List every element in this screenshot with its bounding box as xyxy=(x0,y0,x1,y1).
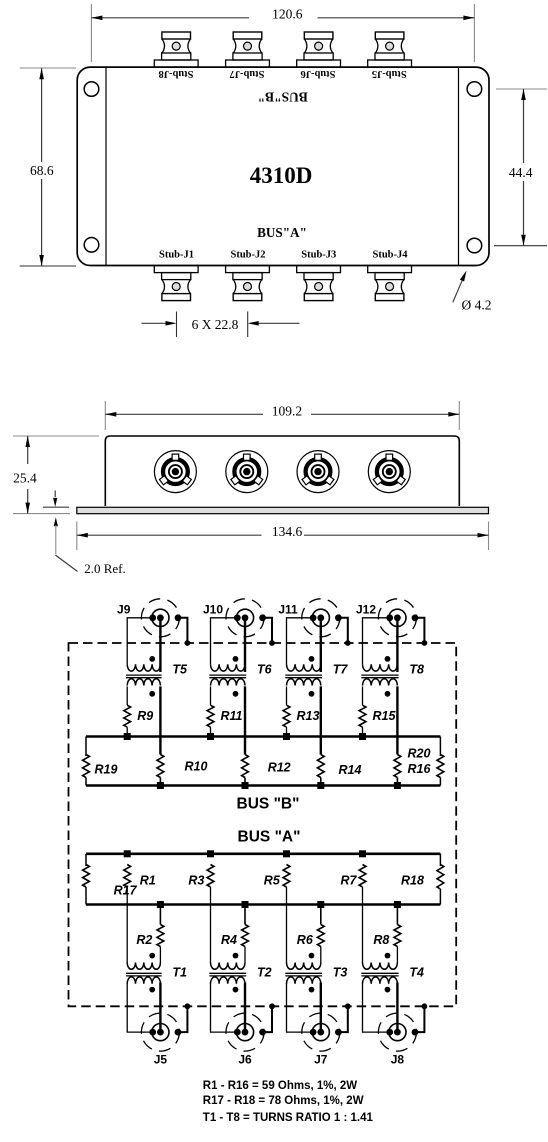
junction J8 shell on shield xyxy=(422,1003,428,1009)
resistor R20 xyxy=(437,755,444,778)
svg-text:J9: J9 xyxy=(117,602,131,616)
wire R5 to transformer T3 xyxy=(286,887,288,963)
polarity dot T3 secondary xyxy=(309,987,315,993)
top view: mounting hole bottom-right xyxy=(467,238,482,253)
wire R3 to transformer T2 xyxy=(210,887,212,963)
junction R3 on bus A upper rail xyxy=(207,850,214,857)
resistor R10 xyxy=(157,755,164,778)
wire T6 to R11 xyxy=(210,686,212,705)
wire J9 shell to shield xyxy=(178,618,187,643)
junction J11 shell on shield xyxy=(345,640,351,646)
svg-text:J11: J11 xyxy=(278,602,298,616)
svg-text:Ø 4.2: Ø 4.2 xyxy=(462,298,492,313)
wire T2 to J6 center pin xyxy=(244,983,246,1033)
svg-text:R5: R5 xyxy=(264,874,281,888)
svg-text:109.2: 109.2 xyxy=(272,403,302,418)
svg-text:R3: R3 xyxy=(188,874,204,888)
resistor R8 xyxy=(394,925,401,947)
connector J7 xyxy=(302,1013,340,1051)
junction R9 on bus B xyxy=(124,733,131,740)
svg-text:T6: T6 xyxy=(257,662,273,676)
dimension 120.6 extension lines xyxy=(90,4,92,62)
svg-text:R20: R20 xyxy=(408,747,431,761)
connector J5 xyxy=(141,1013,179,1051)
resistor R1 xyxy=(124,865,131,888)
wire J12 shell to shield xyxy=(415,618,424,643)
wire T6 secondary to R12 xyxy=(244,686,246,754)
connector J12 xyxy=(378,599,416,637)
dimension 109.2 extension lines xyxy=(104,401,106,430)
dimension 109.2 line xyxy=(105,413,263,415)
junction R8 on bus A lower rail xyxy=(394,901,401,908)
svg-text:J12: J12 xyxy=(356,602,376,616)
svg-text:T1 - T8 = TURNS RATIO 1 : 1.41: T1 - T8 = TURNS RATIO 1 : 1.41 xyxy=(203,1112,374,1124)
side view: base plate xyxy=(77,507,489,513)
polarity dot T1 secondary xyxy=(149,987,155,993)
wire bus A to R6 xyxy=(320,905,322,925)
polarity dot T3 primary xyxy=(309,953,315,959)
resistor R16 xyxy=(394,755,401,778)
wire T3 to J7 center pin xyxy=(320,983,322,1033)
resistor R13 xyxy=(283,705,290,727)
wire J10 left contact to transformer T6 xyxy=(211,618,238,665)
dimension 134.6 extension lines xyxy=(76,522,78,551)
connector Stub-J8 (top view BNC) xyxy=(154,60,198,67)
polarity dot T4 secondary xyxy=(385,987,391,993)
dimension 44.4 extension lines xyxy=(496,88,547,90)
svg-text:R13: R13 xyxy=(297,709,320,723)
chassis/shield dashed enclosure xyxy=(69,643,457,1006)
svg-text:BUS"A": BUS"A" xyxy=(257,225,307,240)
junction R10 on bus B lower rail xyxy=(157,782,164,789)
svg-text:BUS "B": BUS "B" xyxy=(237,796,300,813)
wire R9 to bus B upper rail xyxy=(126,727,128,736)
junction R6 on bus A lower rail xyxy=(317,901,324,908)
junction R15 on bus B xyxy=(359,733,366,740)
svg-text:Stub-J7: Stub-J7 xyxy=(229,68,264,79)
junction R7 on bus A upper rail xyxy=(359,850,366,857)
connector J1 front face (side view) xyxy=(154,451,196,493)
svg-text:R7: R7 xyxy=(341,874,358,888)
side view: enclosure body xyxy=(105,436,459,506)
svg-text:T5: T5 xyxy=(172,662,188,676)
resistor R6 xyxy=(317,925,324,947)
polarity dot T2 secondary xyxy=(233,987,239,993)
polarity dot T8 secondary xyxy=(385,691,391,697)
wire J11 shell to shield xyxy=(338,618,347,643)
wire T1 to J5 center pin xyxy=(159,983,161,1033)
junction J9 shell on shield xyxy=(185,640,191,646)
resistor R2 xyxy=(157,925,164,947)
wire R20 to lower rail xyxy=(439,778,441,786)
wire bus A to R2 xyxy=(159,905,161,925)
wire bus A to R4 xyxy=(244,905,246,925)
svg-text:T8: T8 xyxy=(409,662,424,676)
svg-text:R6: R6 xyxy=(297,933,314,947)
svg-text:J7: J7 xyxy=(314,1053,328,1067)
wire R7 to transformer T4 xyxy=(362,887,364,963)
transformer T3 xyxy=(287,963,321,970)
resistor R14 xyxy=(317,755,324,778)
wire T8 to R15 xyxy=(362,686,364,705)
resistor R15 xyxy=(359,705,366,727)
wire R11 to bus B upper rail xyxy=(210,727,212,736)
wire T8 secondary to R16 xyxy=(396,686,398,754)
wire T7 to R13 xyxy=(286,686,288,705)
transformer T8 xyxy=(363,664,398,671)
dimension 68.6 line xyxy=(41,68,43,162)
svg-text:R1 - R16 = 59 Ohms, 1%, 2W: R1 - R16 = 59 Ohms, 1%, 2W xyxy=(203,1080,357,1092)
svg-text:R10: R10 xyxy=(185,760,208,774)
connector Stub-J7 (top view BNC) xyxy=(226,60,270,67)
wire R1 to transformer T1 xyxy=(126,887,128,963)
resistor R19 xyxy=(83,755,90,778)
svg-text:4310D: 4310D xyxy=(250,163,313,188)
top view: mounting hole bottom-left xyxy=(84,238,99,253)
wire R2 to transformer T1 xyxy=(159,947,161,963)
junction R13 on bus B xyxy=(283,733,290,740)
junction R11 on bus B xyxy=(207,733,214,740)
wire J12 center pin down xyxy=(396,618,398,672)
connector Stub-J5 (top view BNC) xyxy=(368,60,412,67)
svg-text:R15: R15 xyxy=(373,709,397,723)
junction R14 on bus B lower rail xyxy=(317,782,324,789)
wire R12 to bus B lower rail xyxy=(244,778,246,786)
wire J12 left contact to transformer T8 xyxy=(363,618,390,665)
polarity dot T7 secondary xyxy=(309,691,315,697)
svg-text:R8: R8 xyxy=(373,933,389,947)
transformer T1 xyxy=(127,963,160,970)
dimension 6 X 22.8 extension lines xyxy=(176,312,178,338)
svg-text:T3: T3 xyxy=(333,966,348,980)
transformer T4 xyxy=(363,963,398,970)
svg-text:6 X 22.8: 6 X 22.8 xyxy=(192,317,239,332)
svg-text:134.6: 134.6 xyxy=(272,524,303,539)
resistor R9 xyxy=(124,705,131,727)
junction R12 on bus B lower rail xyxy=(242,782,249,789)
connector Stub-J2 (top view BNC) xyxy=(226,266,270,273)
wire bus A left end xyxy=(85,854,87,866)
bus B upper rail xyxy=(86,735,440,738)
wire T3 to J7 left contact xyxy=(287,983,314,1033)
junction R16 on bus B lower rail xyxy=(394,782,401,789)
top view: mounting hole top-right xyxy=(467,82,482,97)
transformer T5 xyxy=(127,664,160,671)
resistor R17 xyxy=(83,865,90,888)
connector J6 xyxy=(226,1013,264,1051)
connector Stub-J3 (top view BNC) xyxy=(297,266,341,273)
top view: mounting hole top-left xyxy=(84,82,99,97)
svg-text:J5: J5 xyxy=(154,1053,168,1067)
resistor R18 xyxy=(437,865,444,890)
wire bus B right end xyxy=(439,737,441,757)
bus A upper rail xyxy=(86,852,440,855)
dimension 25.4 extension lines xyxy=(13,435,99,437)
wire R14 to bus B lower rail xyxy=(320,778,322,786)
svg-text:J8: J8 xyxy=(391,1053,405,1067)
wire J11 left contact to transformer T7 xyxy=(287,618,314,665)
wire T1 to J5 left contact xyxy=(127,983,153,1033)
transformer T2 xyxy=(211,963,245,970)
wire R10 to bus B lower rail xyxy=(159,778,161,786)
wire T7 secondary to R14 xyxy=(320,686,322,754)
wire bus A to R8 xyxy=(396,905,398,925)
dimension 134.6 line xyxy=(77,534,262,536)
junction J6 shell on shield xyxy=(269,1003,275,1009)
junction J10 shell on shield xyxy=(269,640,275,646)
polarity dot T2 primary xyxy=(233,953,239,959)
polarity dot T8 primary xyxy=(385,656,391,662)
svg-text:Stub-J4: Stub-J4 xyxy=(372,250,408,261)
svg-text:J6: J6 xyxy=(238,1053,252,1067)
connector Stub-J4 (top view BNC) xyxy=(368,266,412,273)
dimension 2.0 Ref arrows xyxy=(54,491,56,498)
svg-text:Stub-J2: Stub-J2 xyxy=(230,250,265,261)
junction R1 on bus A upper rail xyxy=(124,850,131,857)
svg-text:R1: R1 xyxy=(140,874,156,888)
svg-text:T1: T1 xyxy=(172,966,187,980)
wire R19 to lower rail xyxy=(85,778,87,786)
dimension 6 X 22.8 arrows xyxy=(142,322,166,324)
connector Stub-J1 (top view BNC) xyxy=(154,266,198,273)
connector J2 front face (side view) xyxy=(226,451,268,493)
dimension 68.6 extension lines xyxy=(20,67,76,69)
svg-text:R18: R18 xyxy=(401,874,424,888)
svg-text:Stub-J3: Stub-J3 xyxy=(301,250,336,261)
resistor R4 xyxy=(242,925,249,947)
junction J5 shell on shield xyxy=(185,1003,191,1009)
wire R4 to transformer T2 xyxy=(244,947,246,963)
connector J11 xyxy=(302,599,340,637)
wire bus B left end xyxy=(85,737,87,757)
wire R13 to bus B upper rail xyxy=(286,727,288,736)
wire R17 to lower rail xyxy=(85,887,87,905)
svg-text:44.4: 44.4 xyxy=(509,165,533,180)
wire J6 shell to shield xyxy=(263,1006,272,1032)
resistor R12 xyxy=(242,755,249,778)
dimension 44.4 line xyxy=(523,89,525,163)
wire J7 shell to shield xyxy=(338,1006,347,1032)
resistor R3 xyxy=(207,865,214,888)
resistor R5 xyxy=(283,865,290,888)
svg-text:Stub-J5: Stub-J5 xyxy=(372,68,407,79)
wire R18 to lower rail xyxy=(439,889,441,905)
svg-text:Stub-J1: Stub-J1 xyxy=(159,250,194,261)
polarity dot T5 primary xyxy=(149,656,155,662)
wire J8 shell to shield xyxy=(415,1006,424,1032)
connector J3 front face (side view) xyxy=(297,451,339,493)
wire J10 shell to shield xyxy=(263,618,272,643)
transformer T7 xyxy=(287,664,321,671)
wire R8 to transformer T4 xyxy=(396,947,398,963)
connector J9 xyxy=(141,599,179,637)
transformer T6 xyxy=(211,664,245,671)
top view: right mounting-flange line xyxy=(458,68,460,266)
svg-text:Stub-J6: Stub-J6 xyxy=(300,68,335,79)
leader arrow for hole diameter xyxy=(453,280,463,302)
svg-text:BUS "A": BUS "A" xyxy=(238,829,301,846)
svg-text:2.0 Ref.: 2.0 Ref. xyxy=(84,561,126,576)
svg-text:120.6: 120.6 xyxy=(272,7,303,22)
svg-text:R19: R19 xyxy=(95,763,118,777)
wire T5 secondary to R10 xyxy=(159,686,161,754)
bus A lower rail xyxy=(86,903,440,906)
polarity dot T6 secondary xyxy=(233,691,239,697)
connector Stub-J6 (top view BNC) xyxy=(297,60,341,67)
top view: coupler enclosure outline xyxy=(77,67,489,265)
wire J5 shell to shield xyxy=(178,1006,187,1032)
svg-text:T2: T2 xyxy=(257,966,272,980)
svg-text:R2: R2 xyxy=(136,933,152,947)
svg-text:J10: J10 xyxy=(203,602,223,616)
junction J7 shell on shield xyxy=(345,1003,351,1009)
polarity dot T4 primary xyxy=(385,953,391,959)
svg-text:25.4: 25.4 xyxy=(13,470,37,485)
svg-text:BUS"B": BUS"B" xyxy=(258,90,308,105)
wire T2 to J6 left contact xyxy=(211,983,238,1033)
wire R16 to bus B lower rail xyxy=(396,778,398,786)
resistor R7 xyxy=(359,865,366,888)
wire T5 to R9 xyxy=(126,686,128,705)
wire bus A right end xyxy=(439,854,441,866)
junction J12 shell on shield xyxy=(422,640,428,646)
wire R6 to transformer T3 xyxy=(320,947,322,963)
svg-text:R11: R11 xyxy=(221,709,243,723)
svg-text:Stub-J8: Stub-J8 xyxy=(158,68,193,79)
svg-text:R12: R12 xyxy=(268,761,291,775)
wire T4 to J8 center pin xyxy=(396,983,398,1033)
polarity dot T5 secondary xyxy=(149,691,155,697)
svg-text:68.6: 68.6 xyxy=(30,163,54,178)
top view: left mounting-flange line xyxy=(105,68,107,266)
svg-text:R14: R14 xyxy=(339,763,362,777)
junction R5 on bus A upper rail xyxy=(283,850,290,857)
wire J9 center pin down xyxy=(159,618,161,672)
svg-text:R16: R16 xyxy=(408,762,432,776)
junction R4 on bus A lower rail xyxy=(242,901,249,908)
wire T4 to J8 left contact xyxy=(363,983,390,1033)
dimension 120.6 line xyxy=(91,17,249,19)
svg-text:R9: R9 xyxy=(137,709,153,723)
wire J11 center pin down xyxy=(320,618,322,672)
wire J9 left contact to transformer T5 xyxy=(127,618,153,665)
svg-text:T4: T4 xyxy=(409,966,424,980)
connector J8 xyxy=(378,1013,416,1051)
wire R15 to bus B upper rail xyxy=(362,727,364,736)
leader line 2.0 Ref xyxy=(55,555,77,572)
svg-text:R17 - R18 = 78 Ohms, 1%, 2W: R17 - R18 = 78 Ohms, 1%, 2W xyxy=(203,1095,364,1107)
bus B lower rail xyxy=(86,784,440,787)
polarity dot T1 primary xyxy=(149,953,155,959)
svg-text:R4: R4 xyxy=(221,933,237,947)
junction R2 on bus A lower rail xyxy=(157,901,164,908)
resistor R11 xyxy=(207,705,214,727)
wire J10 center pin down xyxy=(244,618,246,672)
polarity dot T7 primary xyxy=(309,656,315,662)
connector J10 xyxy=(226,599,264,637)
polarity dot T6 primary xyxy=(233,656,239,662)
dimension 25.4 line xyxy=(27,436,29,464)
svg-text:T7: T7 xyxy=(333,662,349,676)
connector J4 front face (side view) xyxy=(368,451,410,493)
